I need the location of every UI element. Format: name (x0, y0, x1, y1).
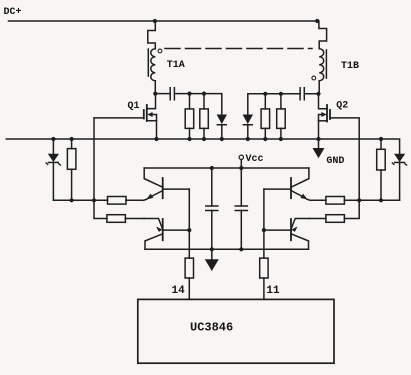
svg-text:T1A: T1A (167, 60, 185, 71)
svg-text:11: 11 (266, 285, 280, 297)
svg-text:T1B: T1B (341, 61, 359, 72)
svg-text:Vcc: Vcc (246, 154, 264, 165)
svg-text:GND: GND (326, 156, 344, 167)
svg-text:Q1: Q1 (128, 101, 140, 112)
svg-text:Q2: Q2 (336, 101, 348, 112)
svg-text:UC3846: UC3846 (190, 321, 233, 335)
svg-text:DC+: DC+ (4, 7, 22, 18)
svg-text:14: 14 (172, 285, 186, 297)
